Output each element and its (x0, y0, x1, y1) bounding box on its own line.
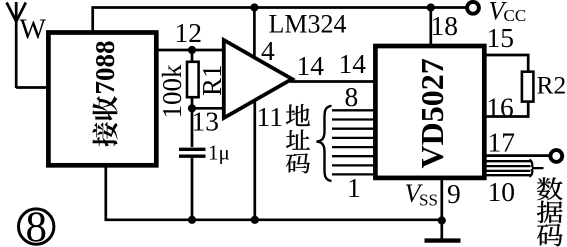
data terminal circle (550, 150, 562, 162)
svg-text:14: 14 (297, 50, 325, 81)
figure number 8 circle (19, 209, 54, 244)
address bus lines (pins 1-8) (332, 110, 377, 174)
op-amp pin11 stub (253, 98, 256, 220)
capacitor C1 plates (179, 149, 206, 156)
wire: pin12 from 7088 to op-amp (156, 49, 224, 52)
wire: pin13 junction to op-amp (192, 107, 224, 110)
pin16 wire from R2 (484, 102, 528, 117)
op-amp pin4 stub (253, 8, 256, 61)
svg-text:14: 14 (339, 48, 367, 79)
svg-text:10: 10 (488, 176, 516, 207)
svg-text:7088: 7088 (90, 41, 120, 95)
VD5027 pin18 stub (429, 8, 432, 48)
wire: top Vcc rail (93, 8, 467, 32)
data bundle lines (484, 161, 531, 175)
svg-text:18: 18 (431, 10, 459, 41)
wire: op-amp output pin14 to VD5027 (290, 80, 376, 83)
svg-text:W: W (20, 15, 47, 46)
label dizhima (address code) (286, 104, 310, 126)
svg-text:15: 15 (487, 22, 515, 53)
svg-text:VD5027: VD5027 (414, 58, 450, 168)
svg-text:1μ: 1μ (208, 141, 230, 165)
svg-text:1: 1 (347, 172, 361, 203)
svg-text:LM324: LM324 (269, 10, 347, 39)
op-amp U1 triangle (224, 40, 292, 118)
ground junction dot (438, 216, 446, 224)
pin15 wire to R2 (484, 55, 528, 71)
svg-text:R2: R2 (537, 71, 567, 100)
antenna W (7, 2, 50, 88)
svg-text:8: 8 (345, 81, 359, 112)
receiver box 7088 (48, 33, 156, 166)
svg-text:9: 9 (447, 178, 461, 209)
resistor R1 leads (191, 50, 194, 108)
svg-text:100k: 100k (157, 64, 187, 119)
svg-text:11: 11 (257, 101, 283, 132)
ground symbol (440, 221, 443, 239)
VD5027 pin9 stub (440, 177, 443, 221)
svg-text:8: 8 (25, 204, 47, 247)
label shujuma (data code) (537, 177, 562, 200)
svg-text:16: 16 (486, 92, 514, 123)
pin17 data line to terminal (484, 154, 551, 157)
wire: box7088 bottom to ground rail (106, 165, 442, 220)
address brace { (317, 106, 332, 181)
svg-text:17: 17 (488, 127, 516, 158)
resistor R1 body (187, 62, 199, 97)
data bundle bracket (529, 160, 543, 177)
svg-text:12: 12 (175, 17, 203, 48)
svg-text:SS: SS (419, 191, 438, 210)
junction dots left (188, 46, 196, 54)
Vcc terminal circle (467, 2, 479, 14)
svg-text:4: 4 (261, 35, 275, 66)
encoder box VD5027 (375, 46, 484, 178)
capacitor C1 leads (191, 108, 194, 220)
rotated label: jieshou 7088 (90, 41, 120, 147)
resistor R2 body (522, 72, 534, 102)
